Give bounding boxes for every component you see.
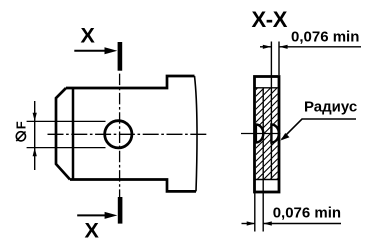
horizontal centerline (axis) of part xyxy=(48,133,209,135)
svg-text:0,076 min: 0,076 min xyxy=(291,29,359,46)
hole radius lip, left wall (D-shaped arc) xyxy=(256,125,263,143)
section marker top: thick stroke xyxy=(118,42,123,71)
section centerline xyxy=(241,133,281,135)
inner visible edge line (bottom band / left wall), also extension for bottom dimension xyxy=(262,88,264,232)
bottom dimension 0,076 min xyxy=(242,221,342,225)
hole extension line (lower edge of hole, to dimension) xyxy=(27,147,106,149)
hole radius lip, right wall (D-shaped arc) xyxy=(271,125,279,143)
svg-text:F: F xyxy=(14,121,29,129)
section marker top: arrow xyxy=(74,47,117,54)
edge line between chamfer cone and body xyxy=(72,88,75,180)
diameter F dimension line with outside arrows xyxy=(33,101,37,170)
section marker bottom: thick stroke xyxy=(118,197,123,224)
inner edge line y=179.5 (main body bottom edge seen in section) xyxy=(255,179,280,181)
inner visible edge line (top band / right wall), also extension for top dimension xyxy=(270,42,272,180)
hatching of cut area xyxy=(255,66,280,202)
svg-text:X-X: X-X xyxy=(252,7,288,32)
svg-text:X: X xyxy=(81,24,96,48)
section marker bottom: arrow xyxy=(77,212,117,219)
hole ∅F circle xyxy=(105,121,132,148)
label ∅F (rotated): diameter symbol drawn + letter F xyxy=(14,121,29,141)
top dimension 0,076 min xyxy=(260,45,361,49)
inner edge line y=87.8 (main body top edge seen in section) xyxy=(255,87,280,89)
section outer outline rectangle xyxy=(255,77,280,193)
svg-text:Радиус: Радиус xyxy=(304,98,357,115)
vertical cutting-plane line X-X (dash-dot) xyxy=(119,74,121,197)
svg-text:0,076 min: 0,076 min xyxy=(273,205,341,222)
part outline (chamfered left end, body, stepped right end) xyxy=(56,76,196,191)
break line at right (part continues) xyxy=(195,76,198,191)
extension line from right outline edge for top dimension xyxy=(278,42,280,76)
extension line from left outline edge for bottom dimension xyxy=(254,193,256,232)
hole extension line (upper edge of hole, to dimension) xyxy=(27,120,106,122)
leader line for radius label xyxy=(281,119,357,141)
svg-text:X: X xyxy=(85,218,100,242)
